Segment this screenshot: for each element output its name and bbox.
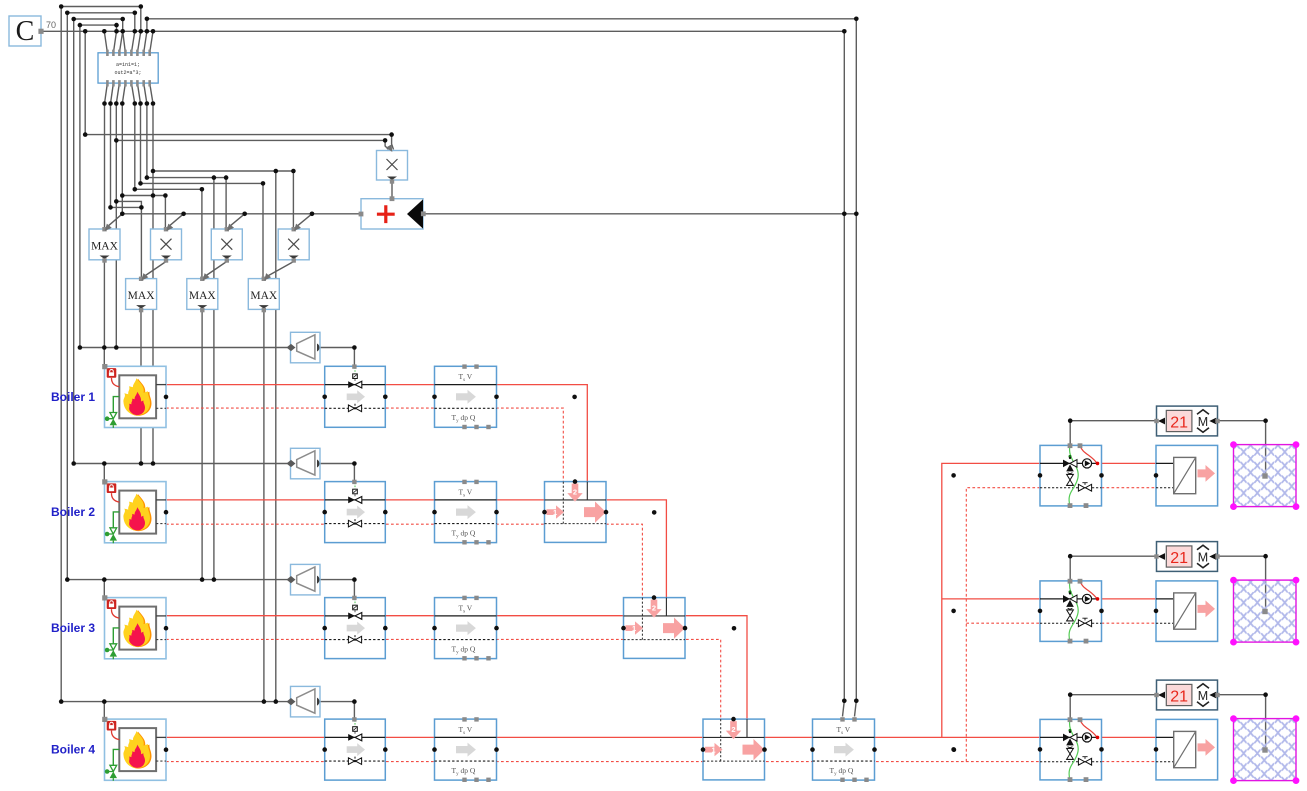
junction boiler outlet bbox=[164, 395, 169, 400]
pipe return boiler4 main bbox=[166, 761, 1040, 763]
wire S4 bbox=[135, 188, 202, 190]
valve V1 bbox=[325, 364, 386, 427]
product block P3 bbox=[278, 227, 309, 263]
wire V3 to boiler2 row bbox=[73, 19, 75, 464]
svg-text:Boiler 2: Boiler 2 bbox=[51, 505, 95, 519]
wire S2 drop to boiler3 row bbox=[213, 178, 215, 580]
wire Q3 to boiler1 row bbox=[115, 104, 117, 348]
wire S3 bbox=[141, 182, 264, 184]
valve V2 bbox=[325, 480, 386, 543]
junction mixer ports bbox=[701, 747, 706, 752]
pipe supply mix1-radiator1 bbox=[1102, 462, 1157, 464]
max block MAX4 bbox=[248, 277, 279, 313]
wire script input bbox=[113, 31, 116, 53]
wire script output bbox=[116, 83, 119, 103]
pipe return boiler1 bbox=[166, 408, 563, 482]
wire gain out to valve bbox=[320, 702, 354, 720]
junction net-70b end bbox=[854, 17, 859, 22]
junction right verticals bbox=[842, 699, 859, 704]
wire S2 bbox=[147, 177, 226, 179]
junction row1 bbox=[59, 4, 143, 9]
wire right vertical A bbox=[843, 31, 845, 716]
wire script input bbox=[119, 31, 122, 53]
wire stub r3-r5 bbox=[122, 19, 124, 31]
pipe supply boiler4 main bbox=[166, 736, 1040, 738]
max block MAX1 bbox=[89, 227, 120, 263]
wire multA out diag bbox=[143, 262, 167, 278]
svg-text:MAX: MAX bbox=[128, 290, 156, 302]
pipe return radiator3-mix3 bbox=[1102, 761, 1157, 763]
svg-text:2: 2 bbox=[652, 604, 656, 613]
junction S3 bbox=[138, 181, 265, 186]
junction S6 bbox=[114, 199, 119, 204]
junction valve ports bbox=[322, 747, 327, 752]
wire Q4 to adder net bbox=[121, 104, 123, 214]
svg-text:M: M bbox=[1198, 550, 1208, 564]
junction row2 aux bbox=[652, 510, 657, 515]
svg-text:70: 70 bbox=[46, 20, 56, 30]
wire diag to multA bbox=[167, 214, 184, 229]
junction sensor ports bbox=[432, 510, 437, 515]
svg-text:Boiler 1: Boiler 1 bbox=[51, 390, 95, 404]
pipe supply branch circuit2 bbox=[942, 598, 1040, 600]
junction row3 bbox=[71, 17, 149, 22]
pipe return radiator2-mix2 bbox=[1102, 622, 1157, 624]
wire stub to boiler input bbox=[103, 348, 105, 367]
svg-text:MAX: MAX bbox=[91, 241, 119, 253]
wire stub to boiler input bbox=[103, 464, 105, 482]
svg-text:21: 21 bbox=[1170, 689, 1188, 706]
boiler B2 bbox=[102, 479, 166, 543]
wire S1 drop to boiler4 row bbox=[275, 171, 277, 702]
pipe return boiler2 bbox=[166, 523, 606, 525]
wire stub r1-r5 bbox=[140, 7, 142, 32]
flow sensor FS5 (common) bbox=[813, 717, 875, 782]
adder A1 with direction triangle bbox=[359, 196, 426, 229]
pipe return boiler3 bbox=[166, 638, 686, 640]
svg-text:1: 1 bbox=[553, 508, 557, 517]
junction boiler1 row bbox=[78, 345, 119, 350]
wire V5 to mult feed bbox=[84, 31, 86, 134]
zone Z1 bbox=[1230, 441, 1299, 510]
junction S2 bbox=[145, 175, 229, 180]
junction boiler2 row bbox=[71, 461, 155, 466]
wire stub r3b-r5 bbox=[146, 19, 148, 32]
max block MAX3 bbox=[187, 277, 218, 313]
wire boiler1 ctl row bbox=[80, 347, 291, 349]
junction circuit aux bbox=[951, 609, 956, 614]
thermostat T3 setpoint 21 bbox=[1154, 680, 1219, 710]
wire net-top2 bbox=[67, 12, 135, 14]
wire script output bbox=[131, 83, 134, 103]
mixer M3 (+boiler3) bbox=[624, 598, 686, 659]
svg-text:a=in1=1;: a=in1=1; bbox=[116, 62, 140, 68]
wire to zone center bbox=[1265, 695, 1267, 751]
wire Q5 bbox=[134, 104, 136, 190]
wire script input bbox=[123, 31, 126, 53]
junction valve ports bbox=[322, 626, 327, 631]
pipe return into mixer3 bbox=[606, 524, 642, 597]
junction radiator port bbox=[1154, 747, 1159, 752]
wire S4 drop to MAX3 bbox=[201, 189, 203, 278]
junction S4 bbox=[133, 187, 205, 192]
gain G3 bbox=[287, 564, 321, 595]
wire to mix-circuit top bbox=[1069, 695, 1071, 720]
junction mixing-circuit ports bbox=[1038, 473, 1043, 478]
junction boiler outlet bbox=[164, 747, 169, 752]
junction row2 bbox=[65, 11, 137, 16]
junction boiler outlet bbox=[164, 626, 169, 631]
gain G2 bbox=[287, 448, 321, 479]
constant C1 value 70 bbox=[9, 16, 56, 47]
wire script input bbox=[137, 31, 140, 53]
product block P2 bbox=[211, 227, 242, 263]
valve V4 bbox=[325, 717, 386, 780]
gain G1 bbox=[287, 332, 321, 363]
wire MAX1 out bbox=[103, 260, 105, 348]
junction Q3 multT feed bbox=[114, 138, 119, 143]
junction S5 bbox=[120, 193, 168, 198]
wire right vertical B bbox=[855, 19, 857, 717]
junction boiler3 row bbox=[65, 577, 216, 582]
wire diag to MAX1 bbox=[106, 214, 123, 229]
wire script input bbox=[104, 31, 107, 53]
junction row1 aux bbox=[572, 395, 577, 400]
pipe supply boiler3 bbox=[166, 615, 686, 617]
wire script output bbox=[111, 83, 114, 103]
junction valve ports bbox=[322, 510, 327, 515]
svg-text:21: 21 bbox=[1170, 415, 1188, 432]
radiator R1 bbox=[1156, 445, 1218, 506]
flow sensor FS1 bbox=[435, 364, 497, 429]
mixing circuit MC1 bbox=[1040, 443, 1102, 508]
wire S1 bbox=[153, 170, 293, 172]
wire boiler3 ctl row bbox=[67, 579, 290, 581]
junction thermostat wires bbox=[1068, 418, 1268, 423]
wire adder-out bbox=[423, 213, 857, 215]
wire S5 bbox=[122, 195, 165, 197]
pipe supply mix3-radiator3 bbox=[1102, 736, 1157, 738]
wire thermostat right bbox=[1218, 555, 1266, 557]
wire thermostat right bbox=[1218, 420, 1266, 422]
wire MAX2 out bbox=[140, 309, 142, 463]
wire to zone center bbox=[1265, 556, 1267, 612]
svg-text:1: 1 bbox=[632, 624, 636, 633]
wire script input bbox=[144, 31, 147, 53]
zone Z2 bbox=[1230, 577, 1299, 646]
svg-text:Boiler 3: Boiler 3 bbox=[51, 621, 95, 635]
junction radiator port bbox=[1154, 473, 1159, 478]
wire MAX4 out bbox=[263, 309, 265, 701]
wire stub r2-r5 bbox=[134, 13, 136, 32]
wire to mix-circuit top bbox=[1069, 556, 1071, 581]
wire S3 drop to MAX4 bbox=[262, 183, 264, 278]
wire Q7 bbox=[146, 104, 148, 178]
wire script input bbox=[131, 31, 134, 53]
svg-text:out2=a*3;: out2=a*3; bbox=[114, 70, 141, 76]
svg-text:MAX: MAX bbox=[189, 290, 217, 302]
mixer M4 (+boiler4) bbox=[703, 719, 765, 780]
mixing circuit MC3 bbox=[1040, 717, 1102, 782]
wire net-70b upper right bbox=[147, 18, 856, 20]
wire V1 to boiler4 row bbox=[60, 7, 62, 702]
wire S2 drop to multB bbox=[225, 178, 227, 229]
wire gain out to valve bbox=[320, 464, 354, 482]
svg-text:21: 21 bbox=[1170, 550, 1188, 567]
wire Q6 bbox=[140, 104, 142, 184]
wire boiler2 ctl row bbox=[74, 463, 291, 465]
wire thermostat left bbox=[1070, 694, 1156, 696]
wire gain out to valve bbox=[320, 348, 354, 367]
wire script output bbox=[105, 83, 108, 103]
svg-text:M: M bbox=[1198, 415, 1208, 429]
wire S7 bbox=[111, 206, 142, 208]
wire diag to multB bbox=[227, 214, 244, 229]
junction sensor ports bbox=[432, 747, 437, 752]
svg-text:1: 1 bbox=[712, 745, 716, 754]
pipe return radiator1-mix1 bbox=[1102, 487, 1157, 489]
thermostat T1 setpoint 21 bbox=[1154, 406, 1219, 436]
wire thermostat left bbox=[1070, 555, 1156, 557]
wire Q8 to boiler2 row bbox=[152, 104, 154, 464]
pipe return riser bbox=[966, 488, 1040, 762]
gain G4 bbox=[287, 686, 321, 717]
product block P0 (top) bbox=[377, 151, 408, 184]
wire thermostat left bbox=[1070, 420, 1156, 422]
wire to zone center bbox=[1265, 421, 1267, 477]
wire script output bbox=[137, 83, 140, 103]
svg-text:2: 2 bbox=[731, 725, 735, 734]
pipe supply mix2-radiator2 bbox=[1102, 598, 1157, 600]
pipe supply after mixer3 bbox=[686, 616, 747, 719]
junction mixing-circuit ports bbox=[1038, 747, 1043, 752]
svg-text:M: M bbox=[1198, 689, 1208, 703]
mixing circuit MC2 bbox=[1040, 579, 1102, 644]
svg-text:C: C bbox=[16, 16, 35, 47]
mixer M2 (boiler1+2) bbox=[545, 482, 607, 543]
junction circuit aux bbox=[951, 473, 956, 478]
junction boiler4 row bbox=[59, 699, 278, 704]
junction multT feed1 bbox=[83, 132, 394, 137]
junction gain outputs bbox=[352, 345, 357, 704]
wire S1 drop to multC bbox=[292, 171, 294, 229]
wire multT in1 bbox=[85, 135, 393, 150]
junction boiler outlet bbox=[164, 510, 169, 515]
pipe supply boiler2 bbox=[166, 499, 606, 501]
wire S5 drop to multA bbox=[164, 196, 166, 229]
pipe return into mixer4 bbox=[686, 639, 721, 719]
boiler B4 bbox=[102, 717, 166, 781]
wire thermostat right bbox=[1218, 694, 1266, 696]
radiator R3 bbox=[1156, 719, 1218, 780]
wire multT in2 bbox=[116, 140, 388, 149]
junction mixer ports bbox=[542, 510, 547, 515]
wire multB out diag bbox=[203, 262, 227, 278]
flow sensor FS4 bbox=[435, 717, 497, 782]
pipe supply riser bbox=[942, 463, 1040, 737]
junction thermostat wires bbox=[1068, 692, 1268, 697]
boiler B3 bbox=[102, 595, 166, 659]
junction sensor ports bbox=[810, 747, 815, 752]
wire gain out to valve bbox=[320, 580, 354, 598]
pipe return branch circuit2 bbox=[966, 622, 1040, 624]
wire net-top4 bbox=[80, 24, 117, 26]
wire multT out bbox=[391, 180, 393, 199]
valve V3 bbox=[325, 596, 386, 659]
junction row3 aux bbox=[732, 626, 737, 631]
wire stub to boiler input bbox=[103, 702, 105, 720]
wire V2 to boiler3 row bbox=[66, 13, 68, 580]
flow sensor FS2 bbox=[435, 480, 497, 545]
wire Q1 to MAX1 bbox=[104, 104, 106, 230]
thermostat T2 setpoint 21 bbox=[1154, 542, 1219, 572]
junction S7 bbox=[108, 205, 144, 210]
wire script output bbox=[150, 83, 153, 103]
junction multT feed2 bbox=[383, 138, 388, 143]
junction row4 aux bbox=[952, 747, 957, 752]
svg-text:2: 2 bbox=[573, 488, 577, 497]
boiler B1 bbox=[102, 364, 166, 428]
wire to mix-circuit top bbox=[1069, 421, 1071, 446]
wire diag to multC bbox=[295, 214, 313, 229]
pipe supply after mixer2 bbox=[606, 500, 666, 598]
junction script outputs bbox=[102, 101, 155, 106]
wire script output bbox=[122, 83, 125, 103]
junction circuit aux bbox=[951, 747, 956, 752]
script block U1 (8-in 8-out equations) bbox=[98, 50, 158, 87]
junction mixer ports bbox=[621, 626, 626, 631]
junction radiator port bbox=[1154, 609, 1159, 614]
pipe supply boiler1 bbox=[166, 385, 587, 482]
product block P1 bbox=[151, 227, 182, 263]
junction sensor ports bbox=[432, 395, 437, 400]
wire multC out diag bbox=[265, 262, 294, 278]
junction row5 net-70 bbox=[83, 29, 847, 34]
wire stub r4-r5 bbox=[116, 25, 118, 31]
wire script input bbox=[150, 31, 153, 53]
radiator R2 bbox=[1156, 581, 1218, 642]
wire stub to boiler input bbox=[103, 580, 105, 598]
junction sensor ports bbox=[432, 626, 437, 631]
wire adder-in net bbox=[122, 213, 361, 215]
flow sensor FS3 bbox=[435, 596, 497, 661]
svg-text:Boiler 4: Boiler 4 bbox=[51, 743, 95, 757]
max block MAX2 bbox=[126, 277, 157, 313]
wire S6 to MAX2 bbox=[116, 201, 141, 278]
junction S1 bbox=[151, 169, 296, 174]
wire script output bbox=[144, 83, 147, 103]
wire net-top1 bbox=[61, 6, 141, 8]
zone Z3 bbox=[1230, 715, 1299, 784]
junction thermostat wires bbox=[1068, 554, 1268, 559]
wire Q2 bbox=[110, 104, 112, 208]
junction mixing-circuit ports bbox=[1038, 609, 1043, 614]
wire MAX3 out bbox=[201, 309, 203, 579]
junction adder-out bbox=[842, 212, 859, 217]
junction valve ports bbox=[322, 395, 327, 400]
junction row4 bbox=[78, 23, 119, 28]
junction adder-in net bbox=[120, 212, 314, 217]
wire V4 to boiler1 row bbox=[79, 25, 81, 347]
wire net-70 from C bbox=[41, 30, 844, 32]
svg-text:MAX: MAX bbox=[250, 290, 278, 302]
wire boiler4 ctl row bbox=[61, 701, 290, 703]
wire net-top3 bbox=[74, 18, 123, 20]
